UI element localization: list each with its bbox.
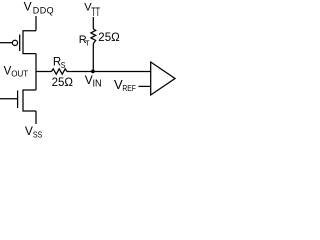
svg-text:TT: TT xyxy=(91,7,100,19)
svg-text:25Ω: 25Ω xyxy=(52,77,74,89)
svg-text:OUT: OUT xyxy=(11,70,28,79)
svg-text:V: V xyxy=(25,124,33,138)
svg-text:V: V xyxy=(24,0,32,14)
svg-text:V: V xyxy=(85,73,93,87)
svg-text:25Ω: 25Ω xyxy=(98,32,120,44)
svg-text:SS: SS xyxy=(33,131,43,140)
svg-text:DDQ: DDQ xyxy=(33,5,54,15)
svg-text:IN: IN xyxy=(93,79,102,90)
svg-text:S: S xyxy=(61,60,66,70)
svg-text:T: T xyxy=(85,39,90,48)
svg-text:REF: REF xyxy=(122,83,135,93)
